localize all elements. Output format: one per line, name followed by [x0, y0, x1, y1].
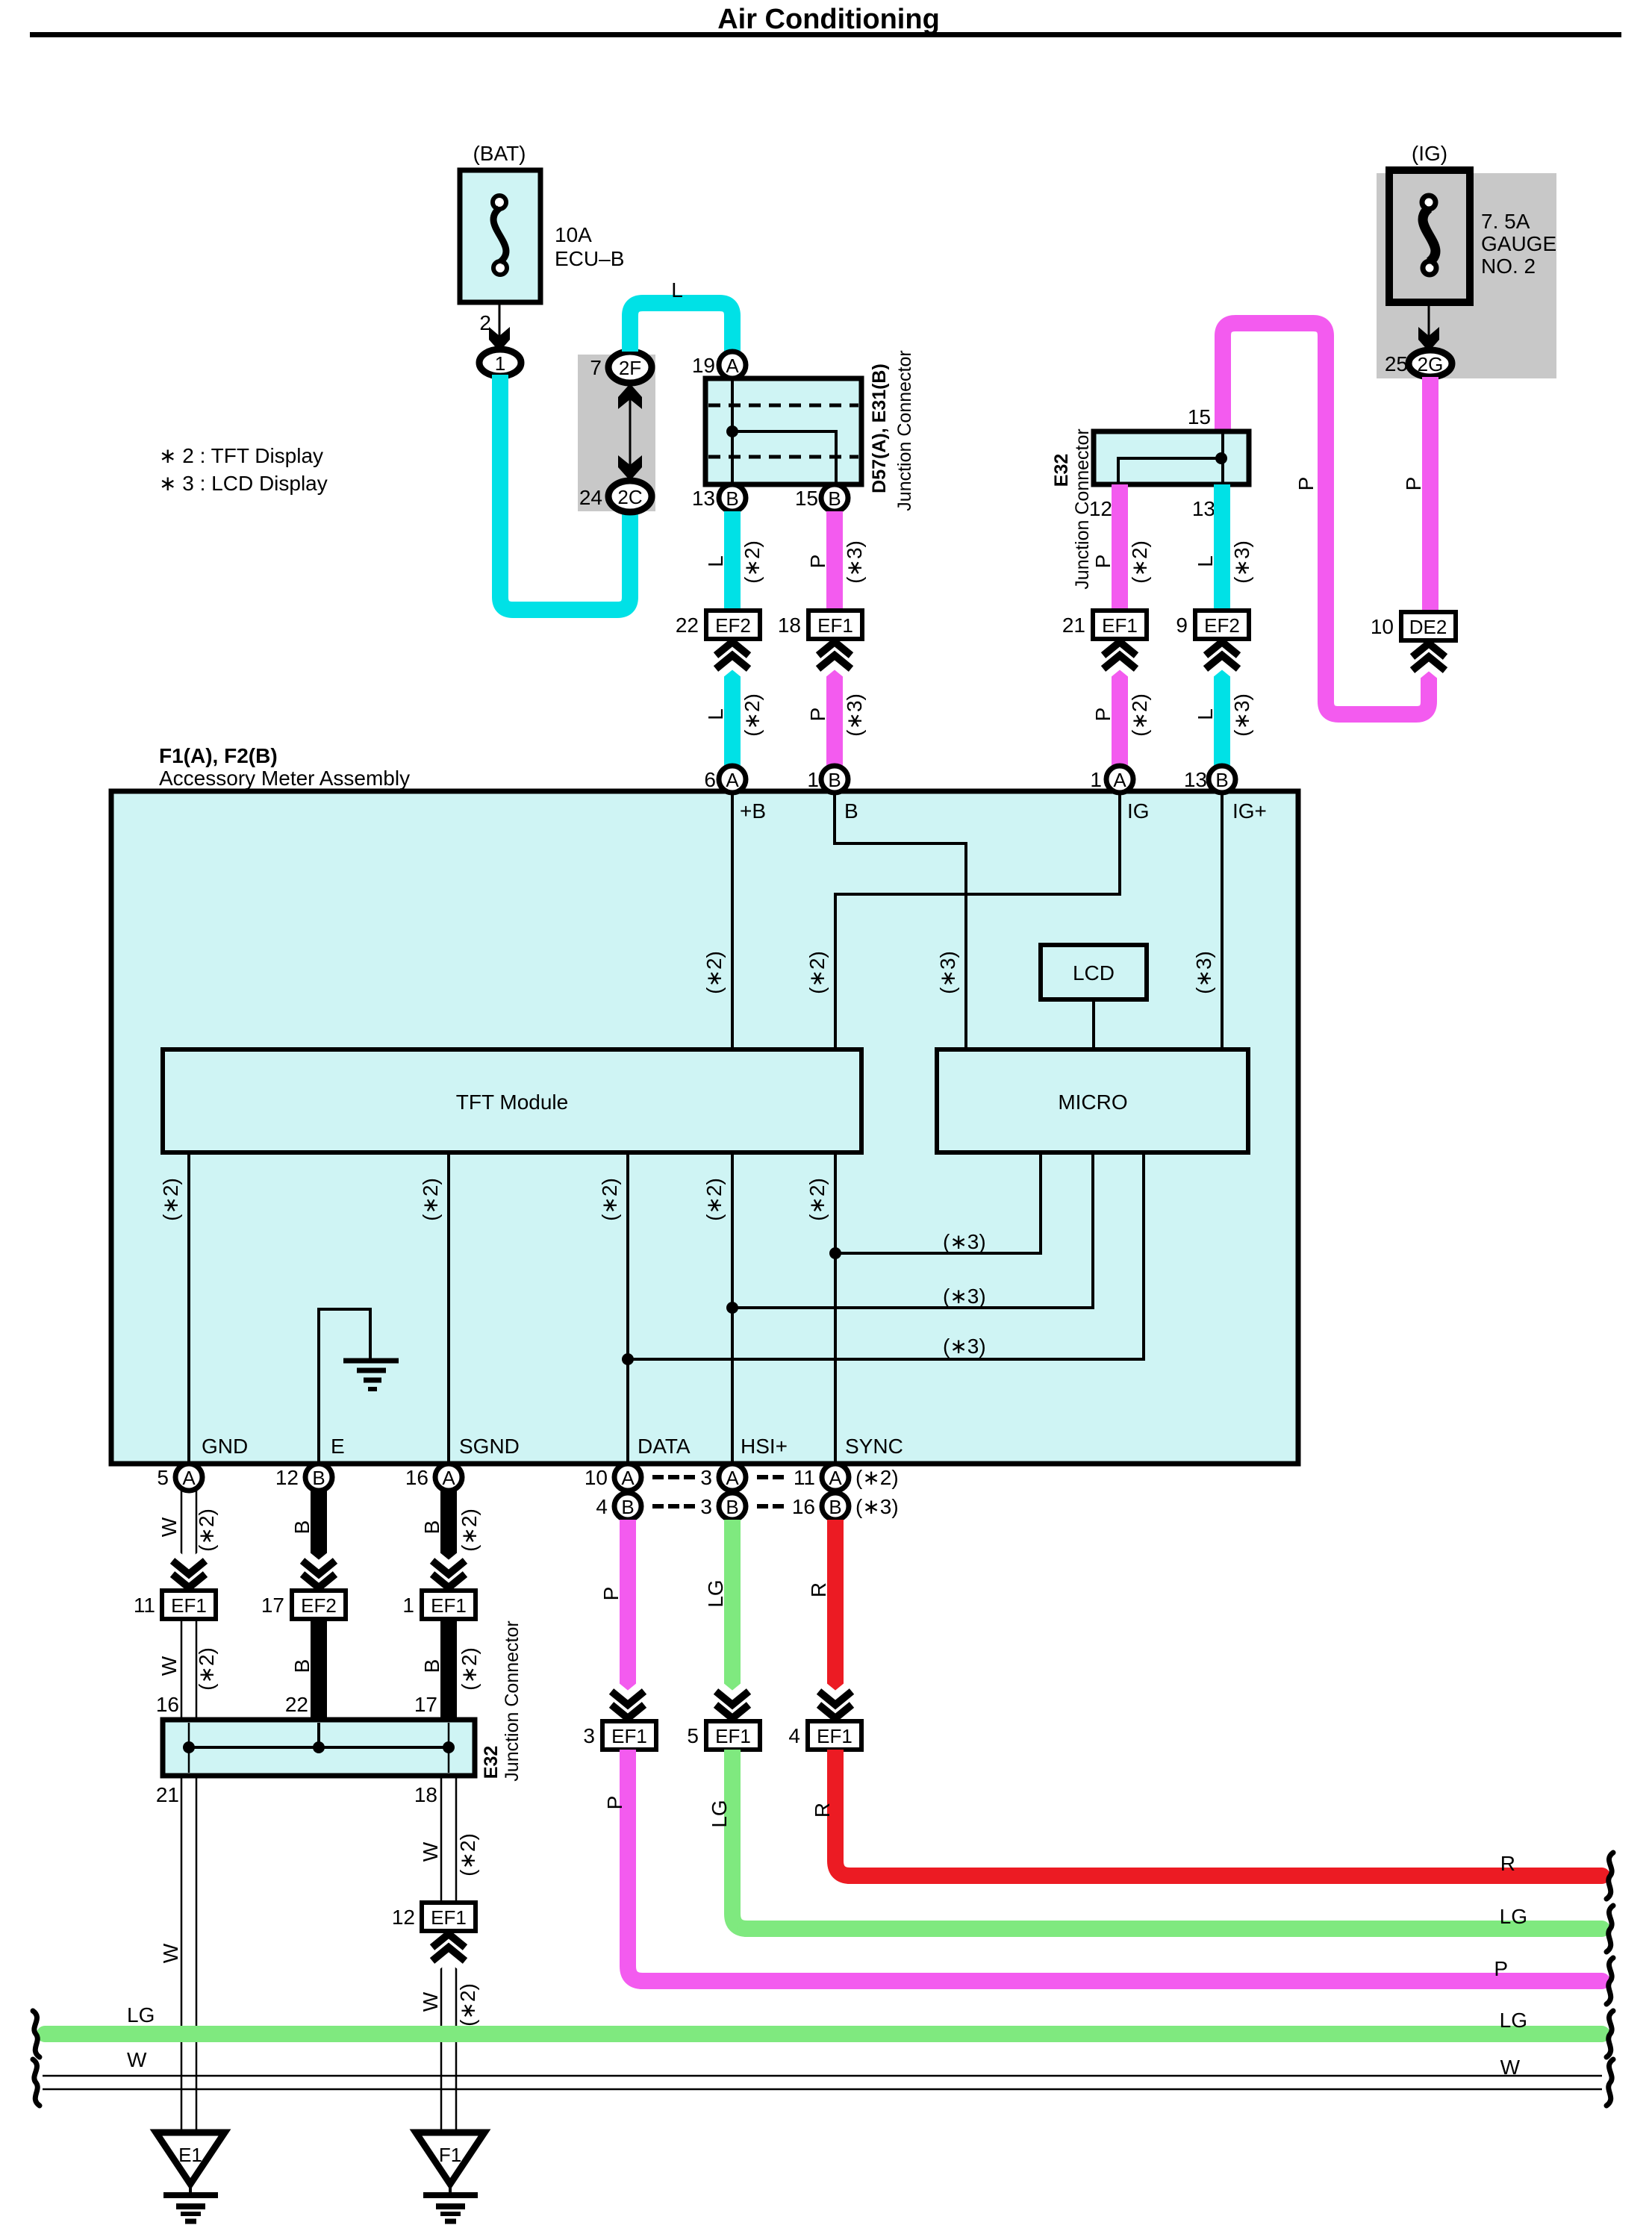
- svg-text:HSI+: HSI+: [741, 1435, 788, 1458]
- svg-text:B: B: [828, 487, 841, 510]
- wire MICRO to DATA net (*3): [628, 1152, 1144, 1359]
- junction 2F/2C gray block: [578, 352, 655, 512]
- svg-text:A: A: [442, 1467, 455, 1489]
- wire P magenta E32 pin12 to EF1: [1112, 484, 1128, 611]
- svg-text:R: R: [811, 1803, 834, 1818]
- svg-text:15: 15: [795, 487, 818, 510]
- svg-text:16: 16: [156, 1693, 179, 1716]
- svg-text:B: B: [312, 1467, 325, 1489]
- wire fuse to pin 1: [499, 302, 501, 337]
- svg-text:E32: E32: [481, 1746, 502, 1779]
- svg-text:E1: E1: [178, 2144, 202, 2166]
- brace LG left: [33, 2011, 40, 2057]
- brace LG right2: [1606, 2011, 1613, 2057]
- svg-text:NO. 2: NO. 2: [1481, 255, 1536, 278]
- wire TFT SGND to pin 16A: [447, 1152, 450, 1464]
- svg-text:MICRO: MICRO: [1058, 1091, 1127, 1114]
- svg-text:1: 1: [495, 352, 505, 375]
- svg-text:B: B: [828, 769, 841, 791]
- svg-text:P: P: [806, 708, 829, 722]
- svg-text:IG: IG: [1127, 799, 1150, 823]
- svg-text:6: 6: [704, 768, 716, 791]
- wire TFT HSI+ to pin 3A: [731, 1152, 734, 1464]
- svg-text:11: 11: [134, 1594, 155, 1617]
- svg-text:F1: F1: [439, 2144, 461, 2166]
- svg-text:10A: 10A: [555, 223, 592, 246]
- svg-text:4: 4: [596, 1495, 608, 1518]
- svg-text:4: 4: [788, 1724, 800, 1747]
- svg-text:W: W: [127, 2048, 147, 2071]
- svg-text:(∗2): (∗2): [1128, 540, 1151, 584]
- svg-text:5: 5: [687, 1724, 699, 1747]
- svg-text:B: B: [726, 487, 738, 510]
- svg-text:A: A: [726, 1467, 739, 1489]
- svg-text:(∗3): (∗3): [843, 540, 866, 584]
- svg-text:(∗2): (∗2): [855, 1466, 899, 1489]
- svg-text:L: L: [1194, 555, 1217, 567]
- svg-text:LG: LG: [1500, 1905, 1527, 1928]
- svg-text:P: P: [599, 1587, 623, 1601]
- svg-text:(∗2): (∗2): [805, 951, 829, 994]
- svg-text:B: B: [1215, 769, 1228, 791]
- svg-text:(∗2): (∗2): [195, 1509, 218, 1552]
- svg-text:GAUGE: GAUGE: [1481, 232, 1556, 255]
- svg-text:EF1: EF1: [817, 1725, 853, 1747]
- svg-text:16: 16: [792, 1495, 815, 1518]
- svg-text:10: 10: [585, 1466, 608, 1489]
- brace LG right: [1606, 1906, 1613, 1952]
- svg-text:W: W: [158, 1656, 181, 1676]
- svg-text:7. 5A: 7. 5A: [1481, 210, 1530, 233]
- svg-text:21: 21: [1062, 614, 1085, 637]
- svg-text:EF2: EF2: [715, 614, 751, 637]
- svg-text:P: P: [1091, 555, 1115, 569]
- brace R right: [1606, 1853, 1613, 1899]
- svg-text:W: W: [419, 1991, 442, 2012]
- wire P magenta EF1 to pin 1A: [1112, 639, 1128, 766]
- svg-text:(∗3): (∗3): [936, 951, 959, 994]
- svg-text:SYNC: SYNC: [845, 1435, 903, 1458]
- svg-text:(∗3): (∗3): [1192, 951, 1215, 994]
- svg-text:P: P: [1294, 477, 1318, 491]
- wire E pin 12B to internal ground: [319, 1309, 370, 1464]
- svg-text:16: 16: [405, 1466, 428, 1489]
- svg-text:2G: 2G: [1418, 353, 1444, 375]
- svg-text:IG+: IG+: [1232, 799, 1267, 823]
- svg-text:17: 17: [414, 1693, 437, 1716]
- svg-text:B: B: [290, 1520, 314, 1535]
- accessory meter assembly F1(A), F2(B): [111, 744, 1298, 1464]
- svg-text:(∗2): (∗2): [159, 1178, 182, 1221]
- svg-text:L: L: [704, 708, 727, 720]
- svg-text:ECU–B: ECU–B: [555, 247, 624, 270]
- svg-text:A: A: [726, 355, 739, 377]
- svg-text:P: P: [806, 555, 829, 569]
- svg-text:LG: LG: [708, 1800, 731, 1827]
- svg-text:A: A: [621, 1467, 635, 1489]
- svg-text:Junction Connector: Junction Connector: [894, 350, 915, 511]
- svg-text:EF1: EF1: [715, 1725, 751, 1747]
- svg-text:(∗2): (∗2): [702, 951, 726, 994]
- wire TFT SYNC to pin 11A: [834, 1152, 837, 1464]
- arrow down to pin 1: [489, 327, 510, 352]
- svg-text:L: L: [1194, 708, 1217, 720]
- wire W hollow E32 pin 21 to ground E1: [181, 1776, 196, 2133]
- svg-text:R: R: [807, 1582, 830, 1597]
- svg-text:E32: E32: [1051, 454, 1072, 487]
- svg-text:∗ 2 : TFT Display: ∗ 2 : TFT Display: [159, 444, 323, 467]
- svg-text:(∗3): (∗3): [843, 693, 866, 737]
- svg-text:(∗3): (∗3): [855, 1495, 899, 1518]
- wire B black pin 16A to E32 pin 17: [440, 1491, 457, 1722]
- svg-text:13: 13: [1192, 497, 1215, 520]
- wire P magenta 15B to EF1: [826, 511, 843, 611]
- wire L cyan 2F to pin 19A: [630, 303, 732, 352]
- svg-text:EF1: EF1: [171, 1594, 207, 1617]
- svg-text:12: 12: [275, 1466, 299, 1489]
- wire TFT GND to pin 5A: [187, 1152, 190, 1464]
- svg-text:(IG): (IG): [1412, 142, 1447, 165]
- svg-text:B: B: [420, 1659, 443, 1673]
- svg-text:F1(A), F2(B): F1(A), F2(B): [159, 744, 278, 767]
- svg-text:B: B: [290, 1659, 314, 1673]
- wire W hollow E32 pin 18 to ground F1: [441, 1776, 456, 2133]
- svg-text:(∗2): (∗2): [456, 1983, 479, 2027]
- svg-text:(∗3): (∗3): [1230, 693, 1253, 737]
- svg-text:(∗3): (∗3): [943, 1230, 986, 1253]
- brace W right: [1606, 2059, 1613, 2106]
- svg-text:B: B: [844, 799, 858, 823]
- wire P magenta EF1 to pin 1B: [826, 639, 843, 766]
- svg-text:B: B: [829, 1496, 841, 1518]
- svg-text:11: 11: [794, 1466, 815, 1489]
- svg-text:W: W: [159, 1943, 182, 1963]
- internal ground symbol: [343, 1361, 399, 1389]
- wire R red pin 16B to EF1 pin 4: [827, 1520, 844, 1721]
- svg-text:EF1: EF1: [431, 1594, 467, 1617]
- wire fuse to pin 2G: [1428, 302, 1430, 337]
- svg-text:18: 18: [414, 1783, 437, 1806]
- svg-text:2C: 2C: [617, 486, 642, 508]
- svg-text:9: 9: [1176, 614, 1188, 637]
- ground E1: [156, 2133, 225, 2221]
- wire L cyan 13B to EF2: [724, 511, 741, 611]
- svg-text:1: 1: [1090, 768, 1102, 791]
- svg-text:B: B: [726, 1496, 738, 1518]
- wire IG+ to MICRO: [1221, 793, 1224, 1049]
- wire LG green pin 3B to EF1 pin 5: [724, 1520, 741, 1721]
- svg-text:15: 15: [1188, 405, 1211, 428]
- svg-text:P: P: [1091, 708, 1115, 722]
- svg-text:(∗2): (∗2): [702, 1178, 726, 1221]
- wire L cyan EF2 to pin 6A: [724, 639, 741, 766]
- svg-text:A: A: [829, 1467, 842, 1489]
- wire W hollow harness left to right: [43, 2076, 1602, 2089]
- svg-text:Junction Connector: Junction Connector: [502, 1620, 523, 1781]
- svg-text:LG: LG: [1500, 2009, 1527, 2032]
- svg-text:(∗2): (∗2): [458, 1647, 481, 1691]
- svg-text:L: L: [671, 278, 683, 302]
- svg-text:10: 10: [1371, 615, 1394, 638]
- svg-text:Accessory Meter Assembly: Accessory Meter Assembly: [159, 767, 410, 790]
- junction connector D57(A), E31(B): [692, 350, 915, 511]
- svg-text:25: 25: [1385, 352, 1408, 375]
- svg-text:EF1: EF1: [817, 614, 853, 637]
- svg-text:1: 1: [402, 1594, 414, 1617]
- svg-text:LCD: LCD: [1073, 961, 1115, 985]
- svg-text:E: E: [331, 1435, 345, 1458]
- svg-text:P: P: [603, 1796, 626, 1810]
- svg-text:Air Conditioning: Air Conditioning: [717, 4, 940, 35]
- LCD block: [1041, 945, 1147, 999]
- svg-text:B: B: [621, 1496, 634, 1518]
- svg-text:(∗2): (∗2): [598, 1178, 621, 1221]
- wire MICRO to SYNC net (*3): [835, 1152, 1041, 1253]
- svg-text:DE2: DE2: [1409, 616, 1447, 638]
- ground F1: [416, 2133, 484, 2221]
- svg-text:D57(A), E31(B): D57(A), E31(B): [869, 364, 890, 493]
- svg-text:L: L: [704, 555, 727, 567]
- svg-text:W: W: [1500, 2056, 1521, 2079]
- MICRO block: [937, 1049, 1248, 1152]
- junction connector E32 (top): [1051, 428, 1249, 589]
- svg-text:(∗2): (∗2): [456, 1833, 479, 1876]
- svg-text:(∗2): (∗2): [1128, 693, 1151, 737]
- wire LG green harness left to right: [45, 2026, 1602, 2042]
- svg-text:7: 7: [590, 356, 602, 379]
- svg-text:(∗3): (∗3): [943, 1335, 986, 1358]
- svg-text:3: 3: [700, 1495, 712, 1518]
- svg-text:SGND: SGND: [459, 1435, 520, 1458]
- svg-text:LG: LG: [127, 2003, 155, 2027]
- pin 1 of meter (BAT feed): [479, 349, 521, 376]
- wire L cyan E32 pin13 to EF2: [1214, 484, 1230, 611]
- svg-text:3: 3: [583, 1724, 595, 1747]
- svg-text:EF1: EF1: [611, 1725, 647, 1747]
- wire IG to TFT module: [835, 793, 1120, 1049]
- double arrow between 2F and 2C: [629, 396, 632, 470]
- svg-text:EF1: EF1: [431, 1906, 467, 1929]
- svg-text:(BAT): (BAT): [473, 142, 526, 165]
- fuse GAUGE NO.2 7.5A (IG): [1377, 142, 1556, 378]
- svg-text:17: 17: [261, 1594, 284, 1617]
- svg-text:24: 24: [579, 486, 602, 509]
- svg-text:13: 13: [1184, 768, 1207, 791]
- svg-text:LG: LG: [704, 1579, 727, 1607]
- svg-text:A: A: [182, 1467, 196, 1489]
- svg-text:EF2: EF2: [301, 1594, 337, 1617]
- svg-text:EF2: EF2: [1204, 614, 1240, 637]
- svg-text:21: 21: [156, 1783, 179, 1806]
- svg-text:(∗3): (∗3): [943, 1285, 986, 1308]
- brace W left: [33, 2059, 40, 2106]
- svg-text:(∗2): (∗2): [458, 1509, 481, 1552]
- svg-text:TFT Module: TFT Module: [456, 1091, 568, 1114]
- wire W hollow pin 5A to E32 pin 16: [181, 1491, 196, 1722]
- svg-text:19: 19: [692, 354, 715, 377]
- svg-text:GND: GND: [202, 1435, 248, 1458]
- svg-text:W: W: [158, 1517, 181, 1537]
- node SYNC junction: [829, 1247, 841, 1259]
- wire P magenta pin 4B to EF1 pin 3: [620, 1520, 636, 1721]
- svg-text:(∗2): (∗2): [805, 1178, 829, 1221]
- svg-text:13: 13: [692, 487, 715, 510]
- svg-text:W: W: [419, 1841, 442, 1862]
- svg-text:B: B: [420, 1520, 443, 1535]
- wire B to MICRO: [835, 793, 966, 1049]
- svg-text:∗ 3 : LCD Display: ∗ 3 : LCD Display: [159, 472, 328, 495]
- svg-text:(∗2): (∗2): [741, 540, 764, 584]
- dashes pin rows: [652, 1477, 784, 1506]
- svg-text:12: 12: [1089, 497, 1112, 520]
- wire B black pin 12B to E32 pin 22: [311, 1491, 327, 1722]
- junction connector E32 (bottom): [156, 1620, 523, 1806]
- svg-text:1: 1: [807, 768, 819, 791]
- svg-text:18: 18: [778, 614, 801, 637]
- svg-text:22: 22: [285, 1693, 308, 1716]
- svg-text:P: P: [1402, 477, 1425, 491]
- wire +B to TFT module: [731, 793, 734, 1049]
- svg-text:+B: +B: [740, 799, 766, 823]
- svg-text:A: A: [726, 769, 739, 791]
- wire LG green EF1 to harness right: [732, 1750, 747, 1929]
- title underline: [30, 32, 1621, 37]
- svg-text:22: 22: [676, 614, 699, 637]
- wire MICRO to HSI+ net (*3): [732, 1152, 1093, 1308]
- svg-text:3: 3: [700, 1466, 712, 1489]
- svg-text:12: 12: [392, 1906, 415, 1929]
- node HSI+ junction: [726, 1302, 738, 1314]
- svg-text:EF1: EF1: [1102, 614, 1138, 637]
- wire L cyan EF2 to pin 13B: [1214, 639, 1230, 766]
- svg-text:P: P: [1494, 1957, 1508, 1980]
- fuse ECU-B 10A (BAT): [460, 142, 624, 302]
- svg-text:A: A: [1113, 769, 1126, 791]
- svg-text:(∗3): (∗3): [1230, 540, 1253, 584]
- svg-text:2F: 2F: [619, 357, 641, 379]
- node DATA junction: [622, 1353, 634, 1365]
- svg-text:DATA: DATA: [638, 1435, 691, 1458]
- svg-text:(∗2): (∗2): [419, 1178, 442, 1221]
- wire LCD to MICRO: [1092, 999, 1095, 1049]
- brace P right: [1606, 1958, 1613, 2004]
- TFT Module block: [163, 1049, 861, 1152]
- svg-text:(∗2): (∗2): [741, 693, 764, 737]
- svg-text:(∗2): (∗2): [195, 1647, 218, 1691]
- wire P magenta EF1 to harness right: [628, 1750, 643, 1981]
- wire P magenta 2G to DE2: [1422, 377, 1439, 612]
- svg-text:R: R: [1500, 1852, 1515, 1875]
- wire L cyan pin1 to 2C: [500, 375, 630, 610]
- wire P magenta DE2 to E32 pin 15: [1223, 323, 1429, 714]
- svg-text:5: 5: [157, 1466, 169, 1489]
- wire TFT DATA to pin 10A: [626, 1152, 629, 1464]
- wire R red EF1 to harness right: [835, 1750, 850, 1876]
